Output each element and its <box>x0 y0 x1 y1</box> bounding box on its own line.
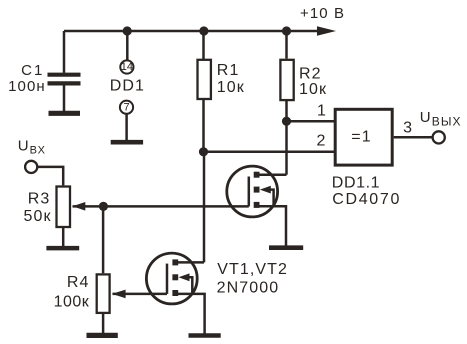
svg-text:VT1,VT2: VT1,VT2 <box>217 261 288 278</box>
resistor R2 <box>280 60 293 100</box>
DD1 pin 14 <box>120 60 133 73</box>
capacitor C1 <box>48 75 81 84</box>
svg-text:DD1.1: DD1.1 <box>332 175 380 192</box>
wire +10V power rail <box>64 30 320 33</box>
wire R4 wiper to VT2 gate <box>113 293 168 296</box>
wire R1 top lead <box>202 31 205 60</box>
wire VT2 drain vertical <box>203 152 206 263</box>
wire R4 bottom lead <box>102 314 105 333</box>
transistor VT2 channel dashes <box>172 259 178 296</box>
svg-text:100к: 100к <box>54 294 90 311</box>
junction node R3 wiper/R4 <box>99 202 108 211</box>
wire C1 top lead <box>63 31 66 73</box>
transistor VT2 gate bar <box>166 264 169 294</box>
wire VT1 gate to R3 wiper <box>73 205 249 208</box>
transistor VT2 body circle <box>146 253 197 304</box>
wire VT2 source lead <box>174 294 205 334</box>
svg-text:10к: 10к <box>217 79 245 96</box>
svg-text:3: 3 <box>403 120 413 137</box>
wire VT1 drain lead <box>255 173 287 176</box>
ground VT2 <box>189 333 221 338</box>
wire R4 top lead <box>102 206 105 273</box>
svg-text:R1: R1 <box>217 62 240 79</box>
wire net pin1 horizontal <box>287 120 336 123</box>
wire VT1 drain vertical <box>285 121 288 175</box>
svg-text:R3: R3 <box>28 191 51 208</box>
ground R4 <box>87 333 118 338</box>
wire C1 bottom lead <box>63 85 66 111</box>
junction node R2/pin1/VT1 drain <box>282 117 291 126</box>
svg-text:7: 7 <box>124 101 130 113</box>
svg-text:14: 14 <box>121 61 133 73</box>
ground DD1 <box>111 140 143 145</box>
svg-text:R2: R2 <box>299 66 322 83</box>
wire pin 3 output <box>394 136 433 139</box>
wire net pin2 horizontal <box>204 151 336 154</box>
wire R1 bottom lead <box>202 100 205 152</box>
ground C1 <box>49 111 81 116</box>
DD1 pin 7 <box>120 101 133 114</box>
junction node rail/R2 <box>282 26 291 35</box>
svg-text:2N7000: 2N7000 <box>217 280 280 297</box>
wire R2 top lead <box>285 31 288 59</box>
gate U1 DD1.1 box <box>335 109 392 165</box>
svg-text:R4: R4 <box>67 274 90 291</box>
svg-text:=1: =1 <box>351 128 371 145</box>
junction node R1/VT2 drain/pin2 <box>199 147 208 156</box>
wire R2 bottom lead <box>285 101 288 121</box>
wire VT1 source lead <box>255 206 286 245</box>
junction node rail/DD1 <box>123 26 132 35</box>
terminal Uin circle <box>25 161 37 173</box>
terminal Uout circle <box>433 131 445 143</box>
potentiometer R4 wiper arrow <box>112 290 126 299</box>
wire DD1 pin 14 lead <box>126 31 129 60</box>
svg-text:2: 2 <box>317 133 327 150</box>
wire Uin to R3 <box>38 167 64 186</box>
transistor VT1 gate bar <box>248 177 251 207</box>
transistor VT1 body circle <box>227 166 278 217</box>
wire VT2 drain lead <box>174 261 204 264</box>
ground R3 <box>46 246 79 251</box>
ground VT1 <box>269 245 303 250</box>
transistor VT1 channel dashes <box>254 172 260 208</box>
wire DD1 pin 7 to ground <box>125 114 128 140</box>
wire R3 bottom lead <box>62 227 65 246</box>
svg-text:100н: 100н <box>8 78 46 95</box>
power arrow +10 V <box>317 26 336 35</box>
svg-text:10к: 10к <box>299 81 327 98</box>
resistor R1 <box>198 60 211 99</box>
svg-text:C1: C1 <box>21 62 44 79</box>
transistor VT1 body arrow <box>260 186 274 207</box>
transistor VT2 body arrow <box>179 273 193 294</box>
junction node rail/R1 <box>199 26 208 35</box>
svg-text:+10 В: +10 В <box>300 5 345 22</box>
potentiometer R3 wiper arrow <box>73 202 86 211</box>
potentiometer R4 <box>97 274 110 313</box>
svg-text:DD1: DD1 <box>110 77 145 94</box>
svg-text:50к: 50к <box>24 208 52 225</box>
svg-text:CD4070: CD4070 <box>332 191 401 208</box>
potentiometer R3 <box>57 187 71 228</box>
svg-text:1: 1 <box>317 103 327 120</box>
